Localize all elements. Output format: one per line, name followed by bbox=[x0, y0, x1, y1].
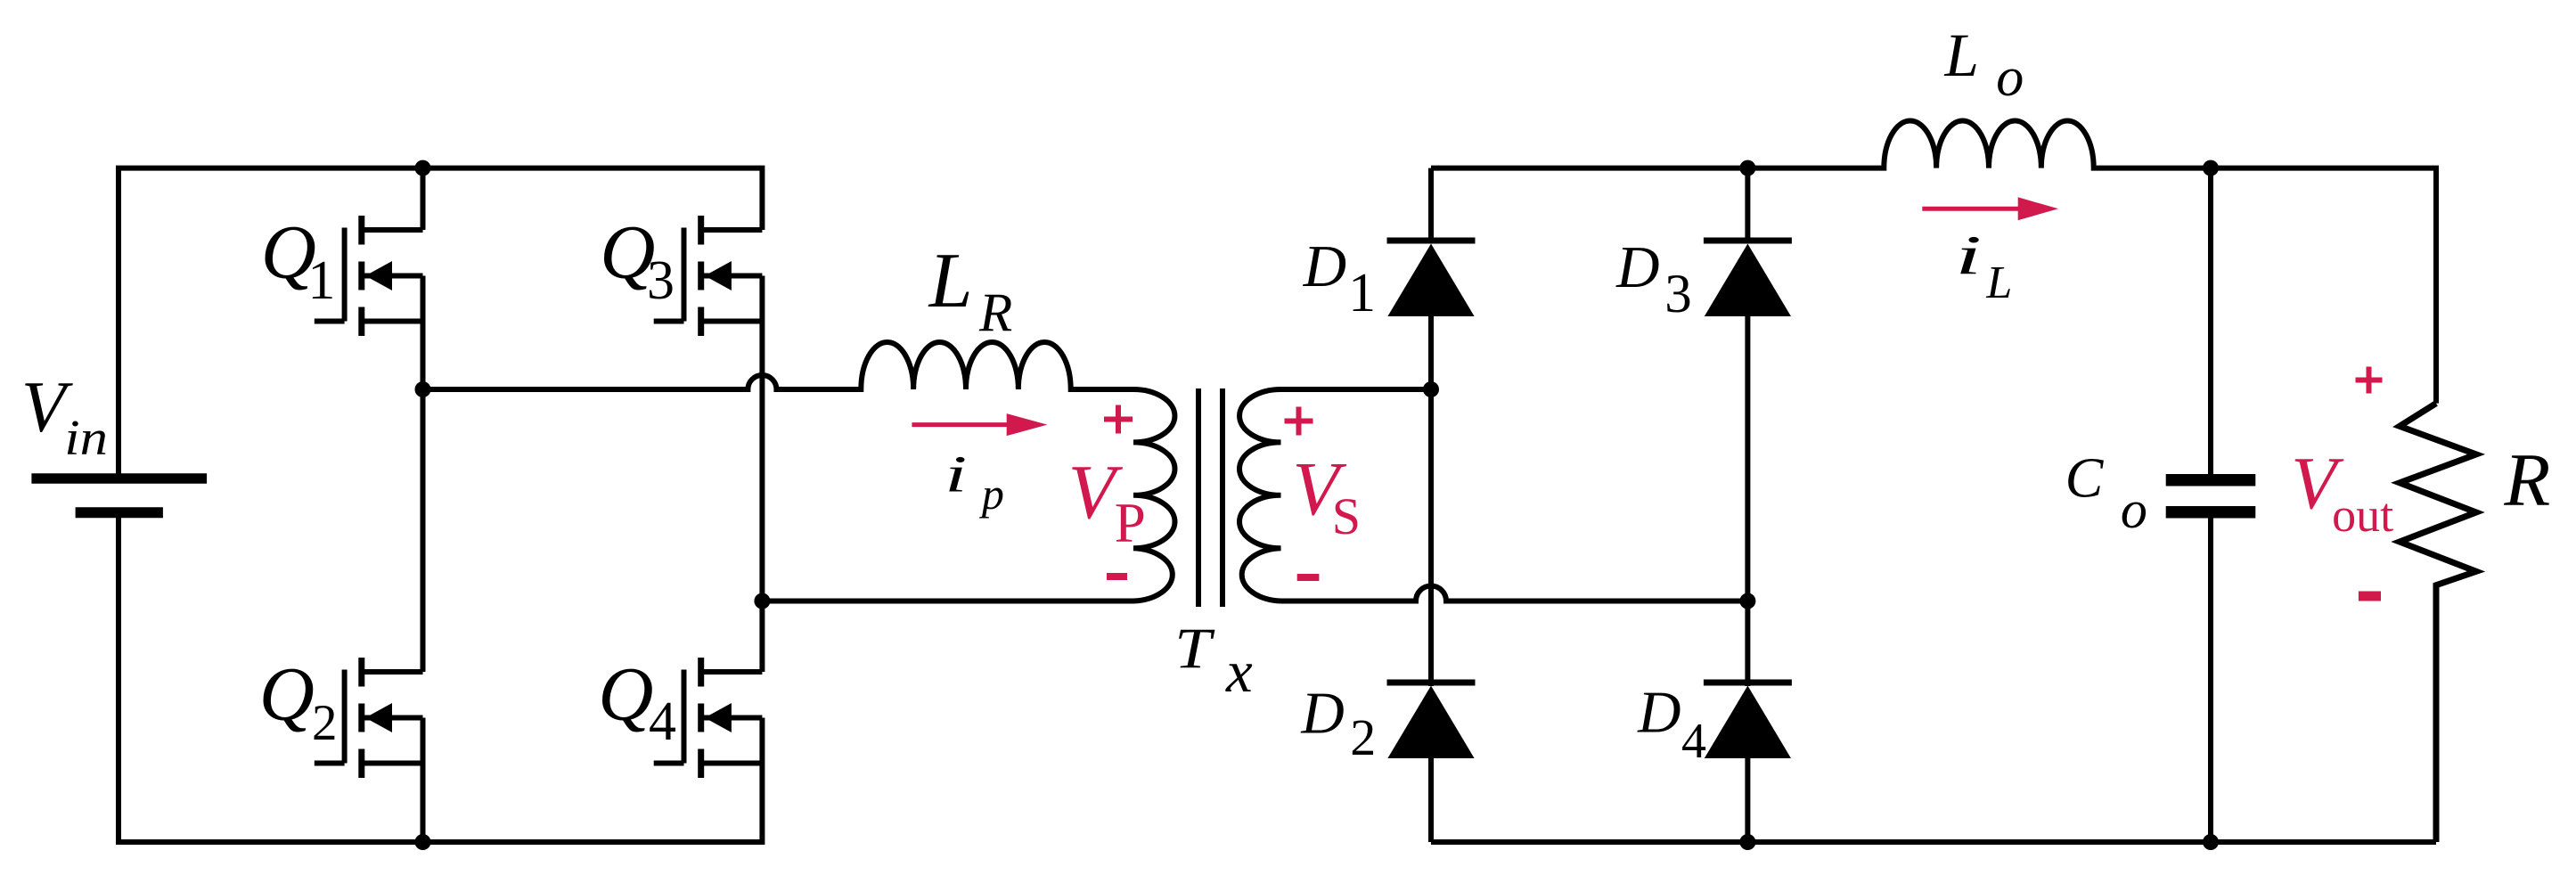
svg-text:p: p bbox=[979, 469, 1004, 519]
svg-text:C: C bbox=[2065, 446, 2105, 510]
svg-text:4: 4 bbox=[1681, 714, 1706, 769]
svg-text:D: D bbox=[1637, 680, 1681, 746]
svg-text:2: 2 bbox=[312, 695, 338, 751]
svg-text:L: L bbox=[928, 238, 973, 324]
svg-text:R: R bbox=[978, 283, 1012, 343]
svg-text:in: in bbox=[64, 410, 108, 465]
svg-text:3: 3 bbox=[647, 250, 675, 311]
svg-text:3: 3 bbox=[1664, 265, 1692, 324]
svg-text:D: D bbox=[1615, 234, 1659, 300]
svg-text:1: 1 bbox=[307, 250, 335, 311]
svg-text:R: R bbox=[2503, 438, 2550, 522]
svg-text:2: 2 bbox=[1350, 708, 1376, 766]
svg-text:Q: Q bbox=[259, 650, 315, 736]
svg-text:L: L bbox=[1985, 258, 2012, 308]
svg-text:L: L bbox=[1944, 21, 1979, 89]
svg-text:x: x bbox=[1225, 639, 1253, 705]
svg-text:Q: Q bbox=[598, 650, 653, 736]
svg-text:D: D bbox=[1303, 233, 1346, 299]
svg-text:o: o bbox=[1996, 47, 2024, 108]
svg-text:4: 4 bbox=[649, 691, 676, 752]
svg-text:o: o bbox=[2121, 480, 2147, 539]
svg-text:1: 1 bbox=[1348, 263, 1376, 323]
svg-text:T: T bbox=[1174, 617, 1215, 681]
svg-text:D: D bbox=[1300, 680, 1344, 746]
svg-text:out: out bbox=[2332, 488, 2393, 542]
svg-text:P: P bbox=[1115, 492, 1146, 554]
svg-text:i: i bbox=[945, 446, 967, 503]
svg-text:S: S bbox=[1332, 487, 1361, 545]
svg-text:i: i bbox=[1955, 225, 1982, 287]
